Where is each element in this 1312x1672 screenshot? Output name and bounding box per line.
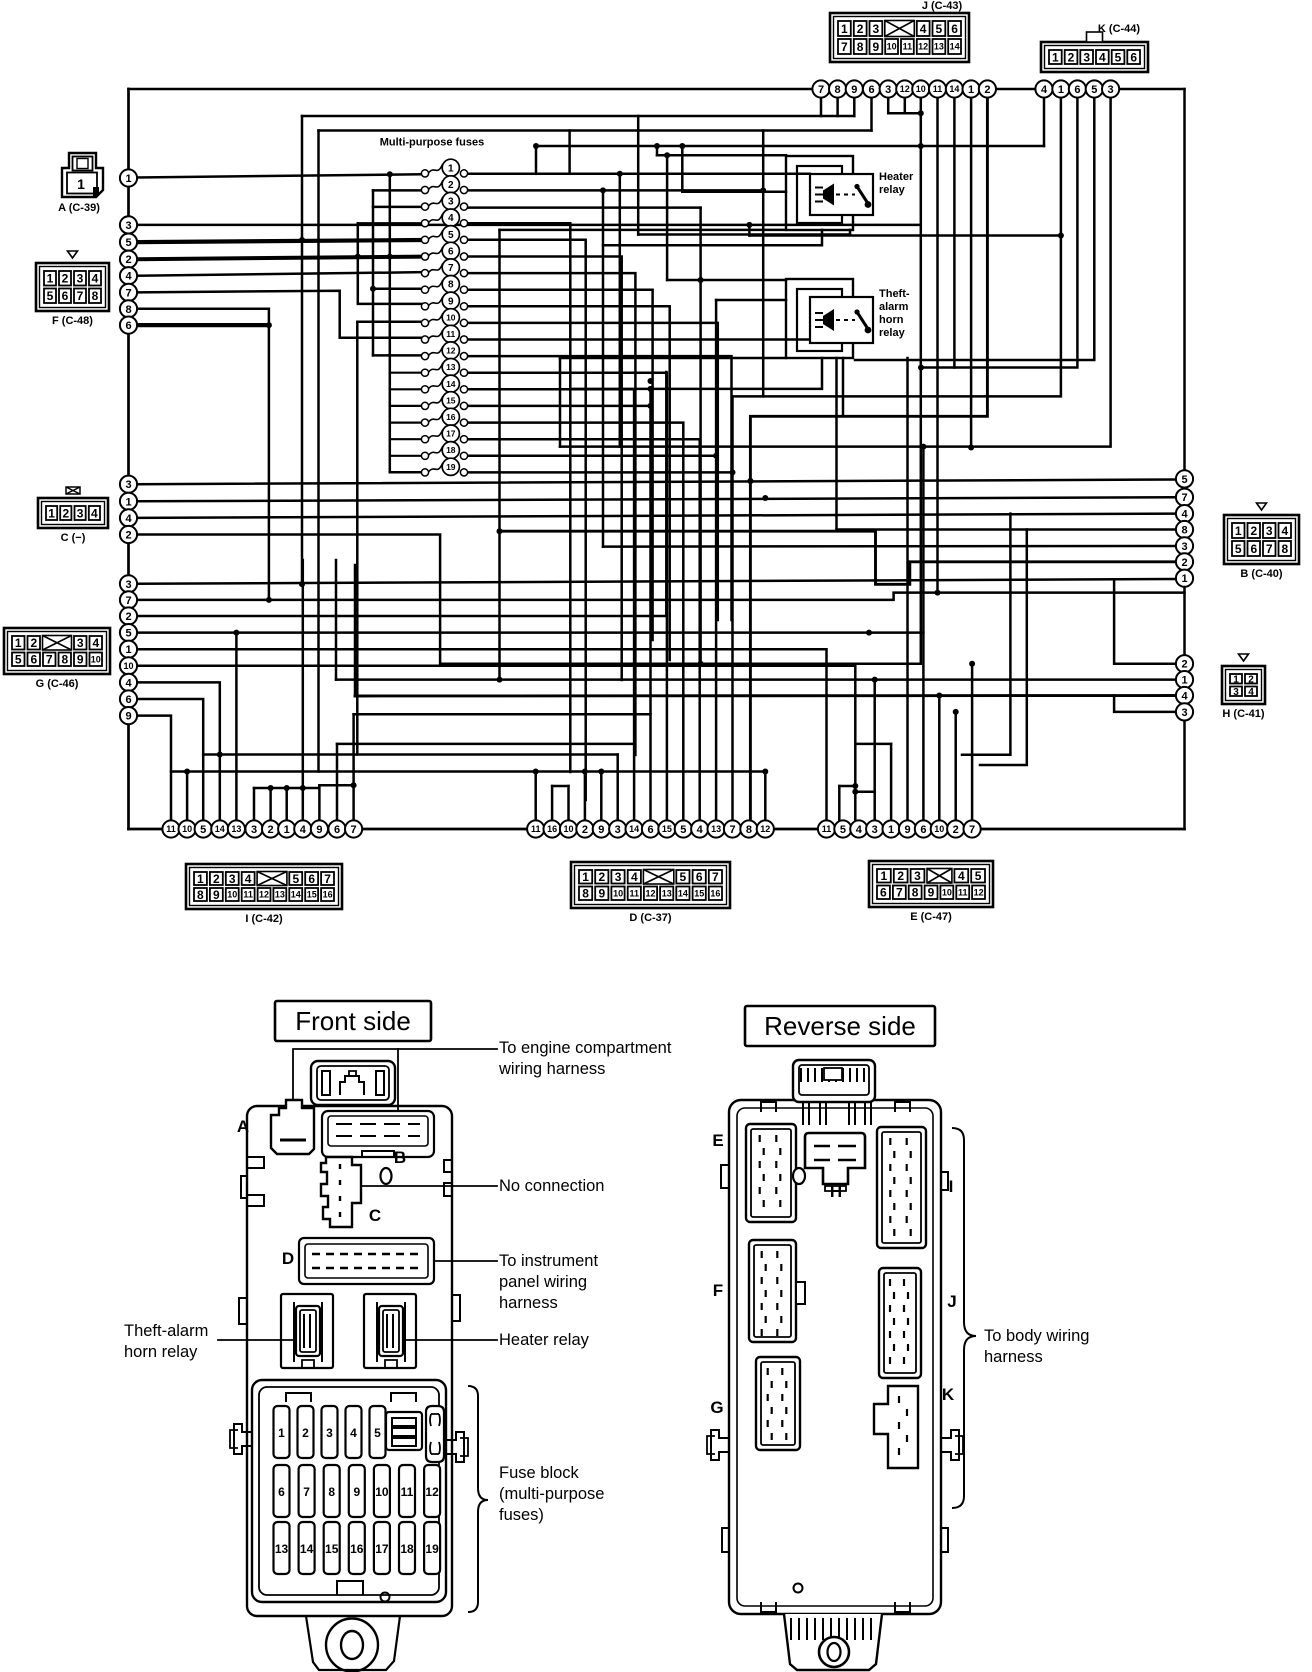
wire theft relay pin2 [716, 299, 786, 302]
pin 14 connector J node [946, 80, 963, 97]
side clip left [234, 1424, 252, 1454]
svg-text:7: 7 [1181, 492, 1187, 504]
svg-text:6: 6 [696, 870, 703, 884]
fuse 17 (block) [374, 1522, 390, 1574]
pin 16 connector D node [544, 820, 561, 837]
pin 9 connector D node [593, 820, 610, 837]
junction [698, 661, 704, 667]
svg-text:14: 14 [446, 379, 456, 389]
svg-text:I (C-42): I (C-42) [245, 913, 283, 925]
wire pin4 G to 14 I [137, 682, 220, 821]
svg-text:4: 4 [920, 22, 927, 36]
fuse 15 (block) [324, 1522, 340, 1574]
fuse F6 [421, 242, 467, 260]
pin 10 connector J node [912, 80, 929, 97]
connector F (C-48) [36, 251, 109, 311]
pin 4 connector B node [1176, 505, 1193, 522]
connector D (front view) [299, 1238, 434, 1284]
junction [679, 143, 685, 149]
junction [600, 187, 606, 193]
svg-text:7: 7 [969, 824, 975, 836]
junction [918, 365, 924, 371]
wire H788 [254, 787, 317, 790]
wire J pin 3 stub [888, 97, 921, 113]
wire K pin 3 line [560, 97, 1111, 447]
junction [747, 478, 753, 484]
svg-text:6: 6 [334, 824, 340, 836]
junction [497, 677, 503, 683]
wire K pin 6 line [921, 97, 1078, 368]
svg-text:16: 16 [710, 889, 720, 899]
wire pin7 F to fuse 11 [137, 291, 422, 338]
svg-text:fuses): fuses) [499, 1506, 544, 1524]
wire 6 E riser [922, 447, 925, 821]
junction [582, 769, 588, 775]
svg-text:12: 12 [974, 888, 984, 898]
wire pin3 F line [137, 224, 921, 227]
junction [184, 769, 190, 775]
pin 5 connector B node [1176, 470, 1193, 487]
pin 2 connector E node [947, 820, 964, 837]
reverse side tabs [721, 1165, 729, 1188]
junction [299, 237, 305, 243]
wire 9 D stub [600, 772, 603, 822]
pin 6 connector K node [1069, 80, 1086, 97]
wire 3 E riser [873, 680, 876, 821]
wire fuse2 out [468, 189, 764, 192]
svg-text:12: 12 [918, 42, 928, 52]
pin 11 connector D node [527, 820, 544, 837]
junction [664, 152, 670, 158]
svg-text:2: 2 [857, 22, 864, 36]
wire stub2 [748, 225, 751, 236]
pin 6 connector G node [120, 690, 137, 707]
svg-text:14: 14 [629, 824, 639, 834]
svg-text:3: 3 [1108, 84, 1114, 96]
svg-text:To body wiring: To body wiring [984, 1327, 1089, 1345]
wire 16 D stub [551, 786, 554, 821]
wire bottom connector bus [129, 828, 1185, 831]
svg-text:14: 14 [300, 1542, 314, 1556]
junction [266, 322, 272, 328]
pin 4 connector H node [1176, 687, 1193, 704]
pin 2 connector C node [120, 526, 137, 543]
wire 12 D stub [764, 772, 767, 822]
wire 4 I riser [302, 560, 305, 821]
fuse 9 (block) [349, 1465, 365, 1517]
svg-text:15: 15 [307, 890, 317, 900]
svg-text:8: 8 [857, 40, 864, 54]
svg-text:7: 7 [729, 824, 735, 836]
wire drop to fuse1 line b [568, 131, 571, 174]
svg-text:E (C-47): E (C-47) [910, 911, 952, 923]
wire H754 [203, 753, 618, 756]
svg-text:4: 4 [697, 824, 704, 836]
svg-text:3: 3 [125, 579, 131, 591]
svg-text:9: 9 [851, 84, 857, 96]
side clip right [446, 1432, 464, 1462]
fuse F17 [421, 425, 467, 443]
wire vertical V638 [637, 116, 640, 235]
svg-text:7: 7 [125, 287, 131, 299]
connector C (front view) [321, 1157, 361, 1227]
svg-text:2: 2 [984, 84, 990, 96]
svg-text:1: 1 [47, 272, 54, 286]
wire pin4 F to fuse 7 [137, 272, 422, 276]
wire H785 [319, 784, 353, 787]
wire fuse8 out [468, 290, 653, 640]
wire fuse17 to 4 D [468, 439, 700, 821]
svg-text:3: 3 [914, 869, 921, 883]
svg-text:10: 10 [182, 824, 192, 834]
wire J pin 11 vertical [936, 97, 939, 593]
svg-text:10: 10 [123, 661, 133, 671]
wire pin8 F down [137, 309, 269, 600]
junction [217, 752, 223, 758]
wire J pin 2 chain to 8 D [750, 97, 987, 821]
svg-text:2: 2 [1068, 50, 1075, 64]
wire fuse10 feed [357, 320, 421, 323]
wire vertical V700 [699, 208, 702, 664]
svg-text:3: 3 [125, 479, 131, 491]
pin 11 connector E node [818, 820, 835, 837]
pin 7 connector J node [812, 80, 829, 97]
svg-text:12: 12 [645, 889, 655, 899]
wire fuse6 out [468, 257, 622, 681]
svg-text:13: 13 [662, 889, 672, 899]
svg-text:14: 14 [215, 824, 225, 834]
svg-text:2: 2 [1250, 524, 1257, 538]
wire relay feed drop [656, 146, 659, 155]
svg-text:1: 1 [15, 636, 22, 650]
wire to pin 2 H [1114, 580, 1176, 663]
fuse F12 [421, 342, 467, 360]
fuse 16 (block) [349, 1522, 365, 1574]
wire pin3 G to pin1 B [137, 579, 1177, 584]
wire K pin 4 stub [1043, 97, 1046, 146]
pin 5 connector E node [834, 820, 851, 837]
junction [497, 528, 503, 534]
svg-text:J (C-43): J (C-43) [922, 0, 963, 12]
svg-text:16: 16 [446, 412, 456, 422]
pin 11 connector J node [929, 80, 946, 97]
fuse F9 [421, 292, 467, 310]
svg-text:5: 5 [292, 872, 299, 886]
wire fuse12 feed [373, 354, 422, 357]
fuse block (front) [252, 1380, 446, 1602]
svg-text:1: 1 [197, 872, 204, 886]
connector C [38, 487, 108, 528]
svg-text:13: 13 [934, 42, 944, 52]
svg-text:15: 15 [662, 824, 672, 834]
pin 6 connector E node [915, 820, 932, 837]
svg-text:8: 8 [1181, 525, 1187, 537]
svg-text:3: 3 [77, 506, 84, 520]
svg-text:7: 7 [448, 263, 454, 274]
svg-text:1: 1 [448, 163, 454, 174]
connector G (reverse view) [756, 1357, 800, 1450]
wire fuse19 feed [390, 471, 422, 474]
svg-text:11: 11 [401, 1485, 414, 1499]
wire vertical V620 [619, 174, 622, 447]
svg-text:1: 1 [125, 173, 131, 185]
junction [648, 378, 654, 384]
svg-text:13: 13 [446, 362, 456, 372]
wire fuse2 feed [373, 189, 422, 192]
wire H771 [171, 770, 765, 773]
junction [387, 254, 393, 260]
svg-text:6: 6 [868, 84, 874, 96]
fuse F10 [421, 309, 467, 327]
svg-text:1: 1 [968, 84, 974, 96]
fuse 11 (block) [399, 1465, 415, 1517]
wire 3 I stub [253, 788, 256, 821]
svg-text:H (C-41): H (C-41) [1222, 708, 1265, 720]
svg-text:3: 3 [1083, 50, 1090, 64]
fuse 10 (block) [374, 1465, 390, 1517]
wire 10 D stub [567, 786, 570, 821]
svg-text:5: 5 [125, 237, 131, 249]
svg-text:1: 1 [582, 870, 589, 884]
wire H744 [337, 743, 634, 746]
brace: to body wiring harness [952, 1128, 976, 1508]
svg-text:11: 11 [822, 824, 832, 834]
connector B (C-40) [1224, 503, 1299, 564]
svg-text:6: 6 [1250, 542, 1257, 556]
wire pin2 C chain [137, 535, 921, 664]
svg-text:14: 14 [950, 42, 960, 52]
svg-text:12: 12 [446, 346, 456, 356]
wire J pin 6 stub [870, 97, 873, 131]
wire H786b [839, 785, 855, 788]
svg-text:9: 9 [353, 1485, 360, 1499]
connector H (C-41) [1222, 654, 1265, 704]
wire pin1 G to 11 E [137, 649, 827, 821]
wire vertical V302 [301, 116, 304, 584]
wire pin1 C to pin7 B [137, 497, 1177, 501]
svg-text:J: J [947, 1292, 956, 1311]
pin 1 connector E node [883, 820, 900, 837]
svg-text:1: 1 [77, 176, 85, 192]
svg-text:3: 3 [1233, 687, 1239, 698]
fuse F14 [421, 375, 467, 393]
svg-text:17: 17 [446, 429, 456, 439]
reverse top connector [793, 1060, 875, 1125]
pin 3 connector H node [1176, 703, 1193, 720]
connector J (C-43) [830, 13, 969, 62]
wire fuse9 feed [358, 223, 422, 304]
svg-text:4: 4 [91, 506, 98, 520]
pin 6 connector D node [642, 820, 659, 837]
wire pin2 F to fuse 6 [137, 257, 422, 260]
svg-text:panel wiring: panel wiring [499, 1273, 587, 1291]
svg-text:5: 5 [125, 628, 131, 640]
fuse F15 [421, 392, 467, 410]
svg-text:wiring harness: wiring harness [498, 1060, 605, 1078]
pin 2 connector J node [979, 80, 996, 97]
reverse bottom connector [784, 1614, 882, 1670]
wire pin2 G line [137, 372, 667, 616]
fuse 2 (block) [298, 1406, 314, 1458]
svg-text:5: 5 [975, 869, 982, 883]
svg-text:10: 10 [563, 824, 573, 834]
wire vertical V560 [559, 358, 562, 447]
pin 13 connector I node [228, 820, 245, 837]
svg-text:3: 3 [77, 636, 84, 650]
svg-text:3: 3 [1181, 707, 1187, 719]
wire left connector bus [127, 89, 130, 829]
svg-text:10: 10 [446, 312, 456, 322]
wire H714 [354, 713, 651, 716]
wire [219, 753, 222, 756]
pin 4 connector K node [1035, 80, 1052, 97]
svg-text:7: 7 [896, 886, 903, 900]
svg-text:16: 16 [547, 824, 557, 834]
svg-text:Theft-alarm: Theft-alarm [124, 1322, 208, 1340]
junction [920, 444, 926, 450]
junction [953, 709, 959, 715]
svg-text:1: 1 [881, 869, 888, 883]
svg-text:10: 10 [227, 890, 237, 900]
junction [713, 453, 719, 459]
svg-text:8: 8 [448, 280, 454, 291]
pin 15 connector D node [658, 820, 675, 837]
connector E (C-47) [869, 861, 993, 907]
svg-text:2: 2 [1248, 674, 1254, 685]
svg-text:8: 8 [835, 84, 841, 96]
wire K pin 5 line [855, 97, 1094, 360]
pin 9 connector J node [846, 80, 863, 97]
junction [268, 785, 274, 791]
svg-text:19: 19 [446, 462, 456, 472]
svg-text:3: 3 [448, 197, 454, 208]
junction [852, 783, 858, 789]
svg-text:horn relay: horn relay [124, 1343, 198, 1361]
wire theft to pin8 B [835, 358, 838, 530]
svg-text:4: 4 [631, 870, 638, 884]
svg-text:2: 2 [125, 254, 131, 266]
wire J pins 7-8-9 bus [302, 115, 854, 118]
wire top connector bus [129, 88, 1185, 91]
svg-text:3: 3 [326, 1426, 333, 1440]
wire K pin 4 line [536, 145, 1044, 148]
wire heater relay top [657, 154, 786, 157]
svg-text:A (C-39): A (C-39) [58, 202, 100, 214]
theft-alarm horn relay slot (front) [281, 1294, 333, 1368]
svg-text:16: 16 [323, 890, 333, 900]
pin 9 connector G node [120, 707, 137, 724]
svg-text:4: 4 [1248, 687, 1254, 698]
fuse F11 [421, 325, 467, 343]
svg-text:harness: harness [499, 1294, 558, 1312]
wire vertical V667 [666, 155, 669, 280]
wire heater to K1 [749, 234, 1061, 237]
front bottom mounting bracket [306, 1616, 400, 1672]
svg-text:5: 5 [1181, 474, 1187, 486]
pin 4 connector I node [294, 820, 311, 837]
svg-text:10: 10 [91, 655, 101, 665]
wire 6 I riser [336, 744, 339, 821]
junction [1058, 233, 1064, 239]
svg-text:4: 4 [448, 213, 454, 224]
svg-text:6: 6 [880, 886, 887, 900]
svg-text:4: 4 [125, 677, 132, 689]
front body side tabs [247, 1157, 264, 1168]
svg-text:9: 9 [125, 711, 131, 723]
svg-text:4: 4 [1099, 50, 1106, 64]
svg-text:Multi-purpose fuses: Multi-purpose fuses [380, 137, 485, 149]
pin 8 connector F node [120, 300, 137, 317]
wire J pin stub [836, 97, 839, 116]
wire fuse4 feed [358, 222, 422, 225]
wire theft relay bottom [560, 357, 786, 360]
wire J pin stub [853, 97, 856, 116]
svg-text:11: 11 [166, 824, 176, 834]
leader: to instrument panel wiring harness [434, 1260, 497, 1262]
svg-text:2: 2 [62, 272, 69, 286]
pin 2 connector D node [576, 820, 593, 837]
svg-text:1: 1 [1235, 524, 1242, 538]
svg-text:4: 4 [1181, 509, 1188, 521]
svg-text:9: 9 [873, 40, 880, 54]
wire pin1 A to fuse 1 [137, 174, 422, 177]
svg-text:9: 9 [316, 824, 322, 836]
wire fuse3 feed [373, 206, 422, 209]
fuse 3 (block) [322, 1406, 338, 1458]
pin 10 connector D node [560, 820, 577, 837]
svg-text:K: K [942, 1385, 955, 1404]
junction [648, 386, 654, 392]
leader: heater relay [403, 1339, 497, 1341]
pin 7 connector D node [724, 820, 741, 837]
svg-text:harness: harness [984, 1348, 1043, 1366]
wire 7 I riser [352, 714, 355, 821]
relay theft-alarm horn K2 [786, 279, 873, 358]
svg-text:6: 6 [647, 824, 653, 836]
wire theft relay top [667, 279, 786, 282]
junction [918, 143, 924, 149]
pin 3 connector F node [120, 216, 137, 233]
svg-text:C (−): C (−) [61, 532, 86, 544]
svg-text:1: 1 [1052, 50, 1059, 64]
fuse F3 [421, 192, 467, 210]
svg-text:To engine compartment: To engine compartment [499, 1039, 672, 1057]
wire fuse12 out [468, 356, 732, 620]
svg-text:11: 11 [933, 84, 943, 94]
pin 14 connector I node [211, 820, 228, 837]
wire to 3 D [616, 755, 619, 822]
svg-text:18: 18 [400, 1542, 414, 1556]
wire drop V763 [762, 131, 765, 397]
wire fuse8 feed [373, 287, 422, 290]
svg-text:4: 4 [245, 872, 252, 886]
wire J pin 14 vertical [953, 97, 956, 368]
svg-text:G: G [710, 1398, 723, 1417]
connector G (C-46) [4, 628, 110, 674]
fuse 7 (block) [299, 1465, 315, 1517]
junction [533, 769, 539, 775]
svg-text:11: 11 [903, 42, 913, 52]
wire fuse11 out [468, 338, 829, 341]
wire to pin 3 H [1114, 696, 1176, 712]
relay heater K1 [786, 156, 873, 230]
svg-text:5: 5 [1235, 542, 1242, 556]
junction [533, 143, 539, 149]
wire 2 D stub [584, 772, 587, 822]
wire pin5 F to fuse 5 [137, 240, 422, 242]
svg-text:10: 10 [916, 84, 926, 94]
svg-text:10: 10 [942, 888, 952, 898]
